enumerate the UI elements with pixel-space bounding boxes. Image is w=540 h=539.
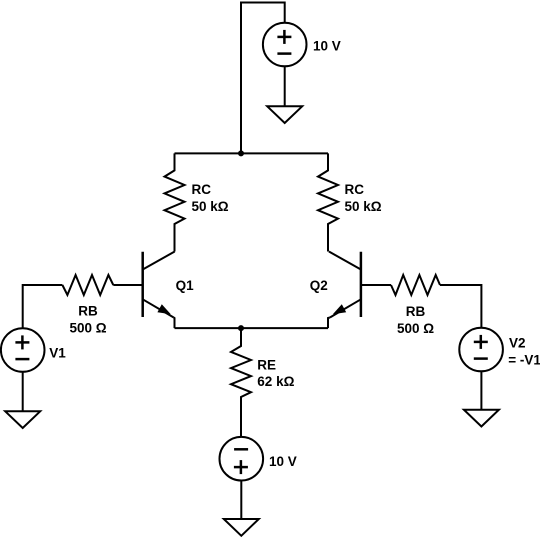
svg-text:10 V: 10 V xyxy=(269,454,297,469)
svg-text:500 Ω: 500 Ω xyxy=(397,321,434,336)
svg-text:= -V1: = -V1 xyxy=(508,352,540,367)
svg-text:10 V: 10 V xyxy=(313,39,341,54)
svg-text:Q2: Q2 xyxy=(310,278,328,293)
voltage source V+ 10 V (top) xyxy=(263,23,307,67)
voltage source V- 10 V (bottom, reversed polarity) xyxy=(220,437,264,481)
svg-text:V2: V2 xyxy=(509,336,526,351)
wire: Q2 base to RB right xyxy=(361,284,391,286)
ground (left) xyxy=(5,411,40,428)
svg-text:50 kΩ: 50 kΩ xyxy=(192,199,229,214)
svg-text:RC: RC xyxy=(345,182,365,197)
svg-text:RB: RB xyxy=(406,304,426,319)
wire: top source to ground xyxy=(284,66,286,106)
svg-text:RC: RC xyxy=(192,182,212,197)
wire: RB right to V2 xyxy=(440,285,481,328)
resistor RB (left) xyxy=(62,275,113,295)
transistor Q2 xyxy=(329,252,361,318)
svg-text:V1: V1 xyxy=(49,345,66,360)
wire: Q1 emitter to tail node xyxy=(173,318,176,329)
resistor RC (left), with leads xyxy=(165,153,185,251)
wire: V2 to ground xyxy=(480,371,482,409)
ground (bottom) xyxy=(224,519,259,536)
junction: tail node xyxy=(238,325,244,331)
voltage source V1 xyxy=(1,328,45,372)
svg-text:62 kΩ: 62 kΩ xyxy=(257,374,294,389)
wire: emitter tail rail xyxy=(175,327,329,329)
voltage source V2 xyxy=(459,328,503,372)
wire: RB left to Q1 base xyxy=(113,284,142,286)
svg-text:50 kΩ: 50 kΩ xyxy=(345,199,382,214)
resistor RC (right), with leads xyxy=(318,153,338,251)
svg-text:Q1: Q1 xyxy=(176,278,195,293)
wire: V1 to RB left xyxy=(23,285,63,328)
wire: Q2 emitter to tail node xyxy=(328,318,330,329)
junction: supply rail node xyxy=(238,150,244,156)
resistor RB (right) xyxy=(391,275,440,295)
resistor RE, with leads xyxy=(231,328,251,437)
svg-text:500 Ω: 500 Ω xyxy=(69,321,106,336)
ground (top) xyxy=(267,106,302,123)
wire: bottom source to ground xyxy=(240,481,242,520)
transistor Q1 xyxy=(143,252,175,318)
wire: supply node up and over to top 10 V source xyxy=(241,3,285,154)
wire: collector supply rail xyxy=(175,152,329,154)
ground (right) xyxy=(464,410,499,427)
wire: V1 to ground xyxy=(22,372,24,412)
svg-text:RB: RB xyxy=(78,304,98,319)
svg-text:RE: RE xyxy=(257,357,276,372)
